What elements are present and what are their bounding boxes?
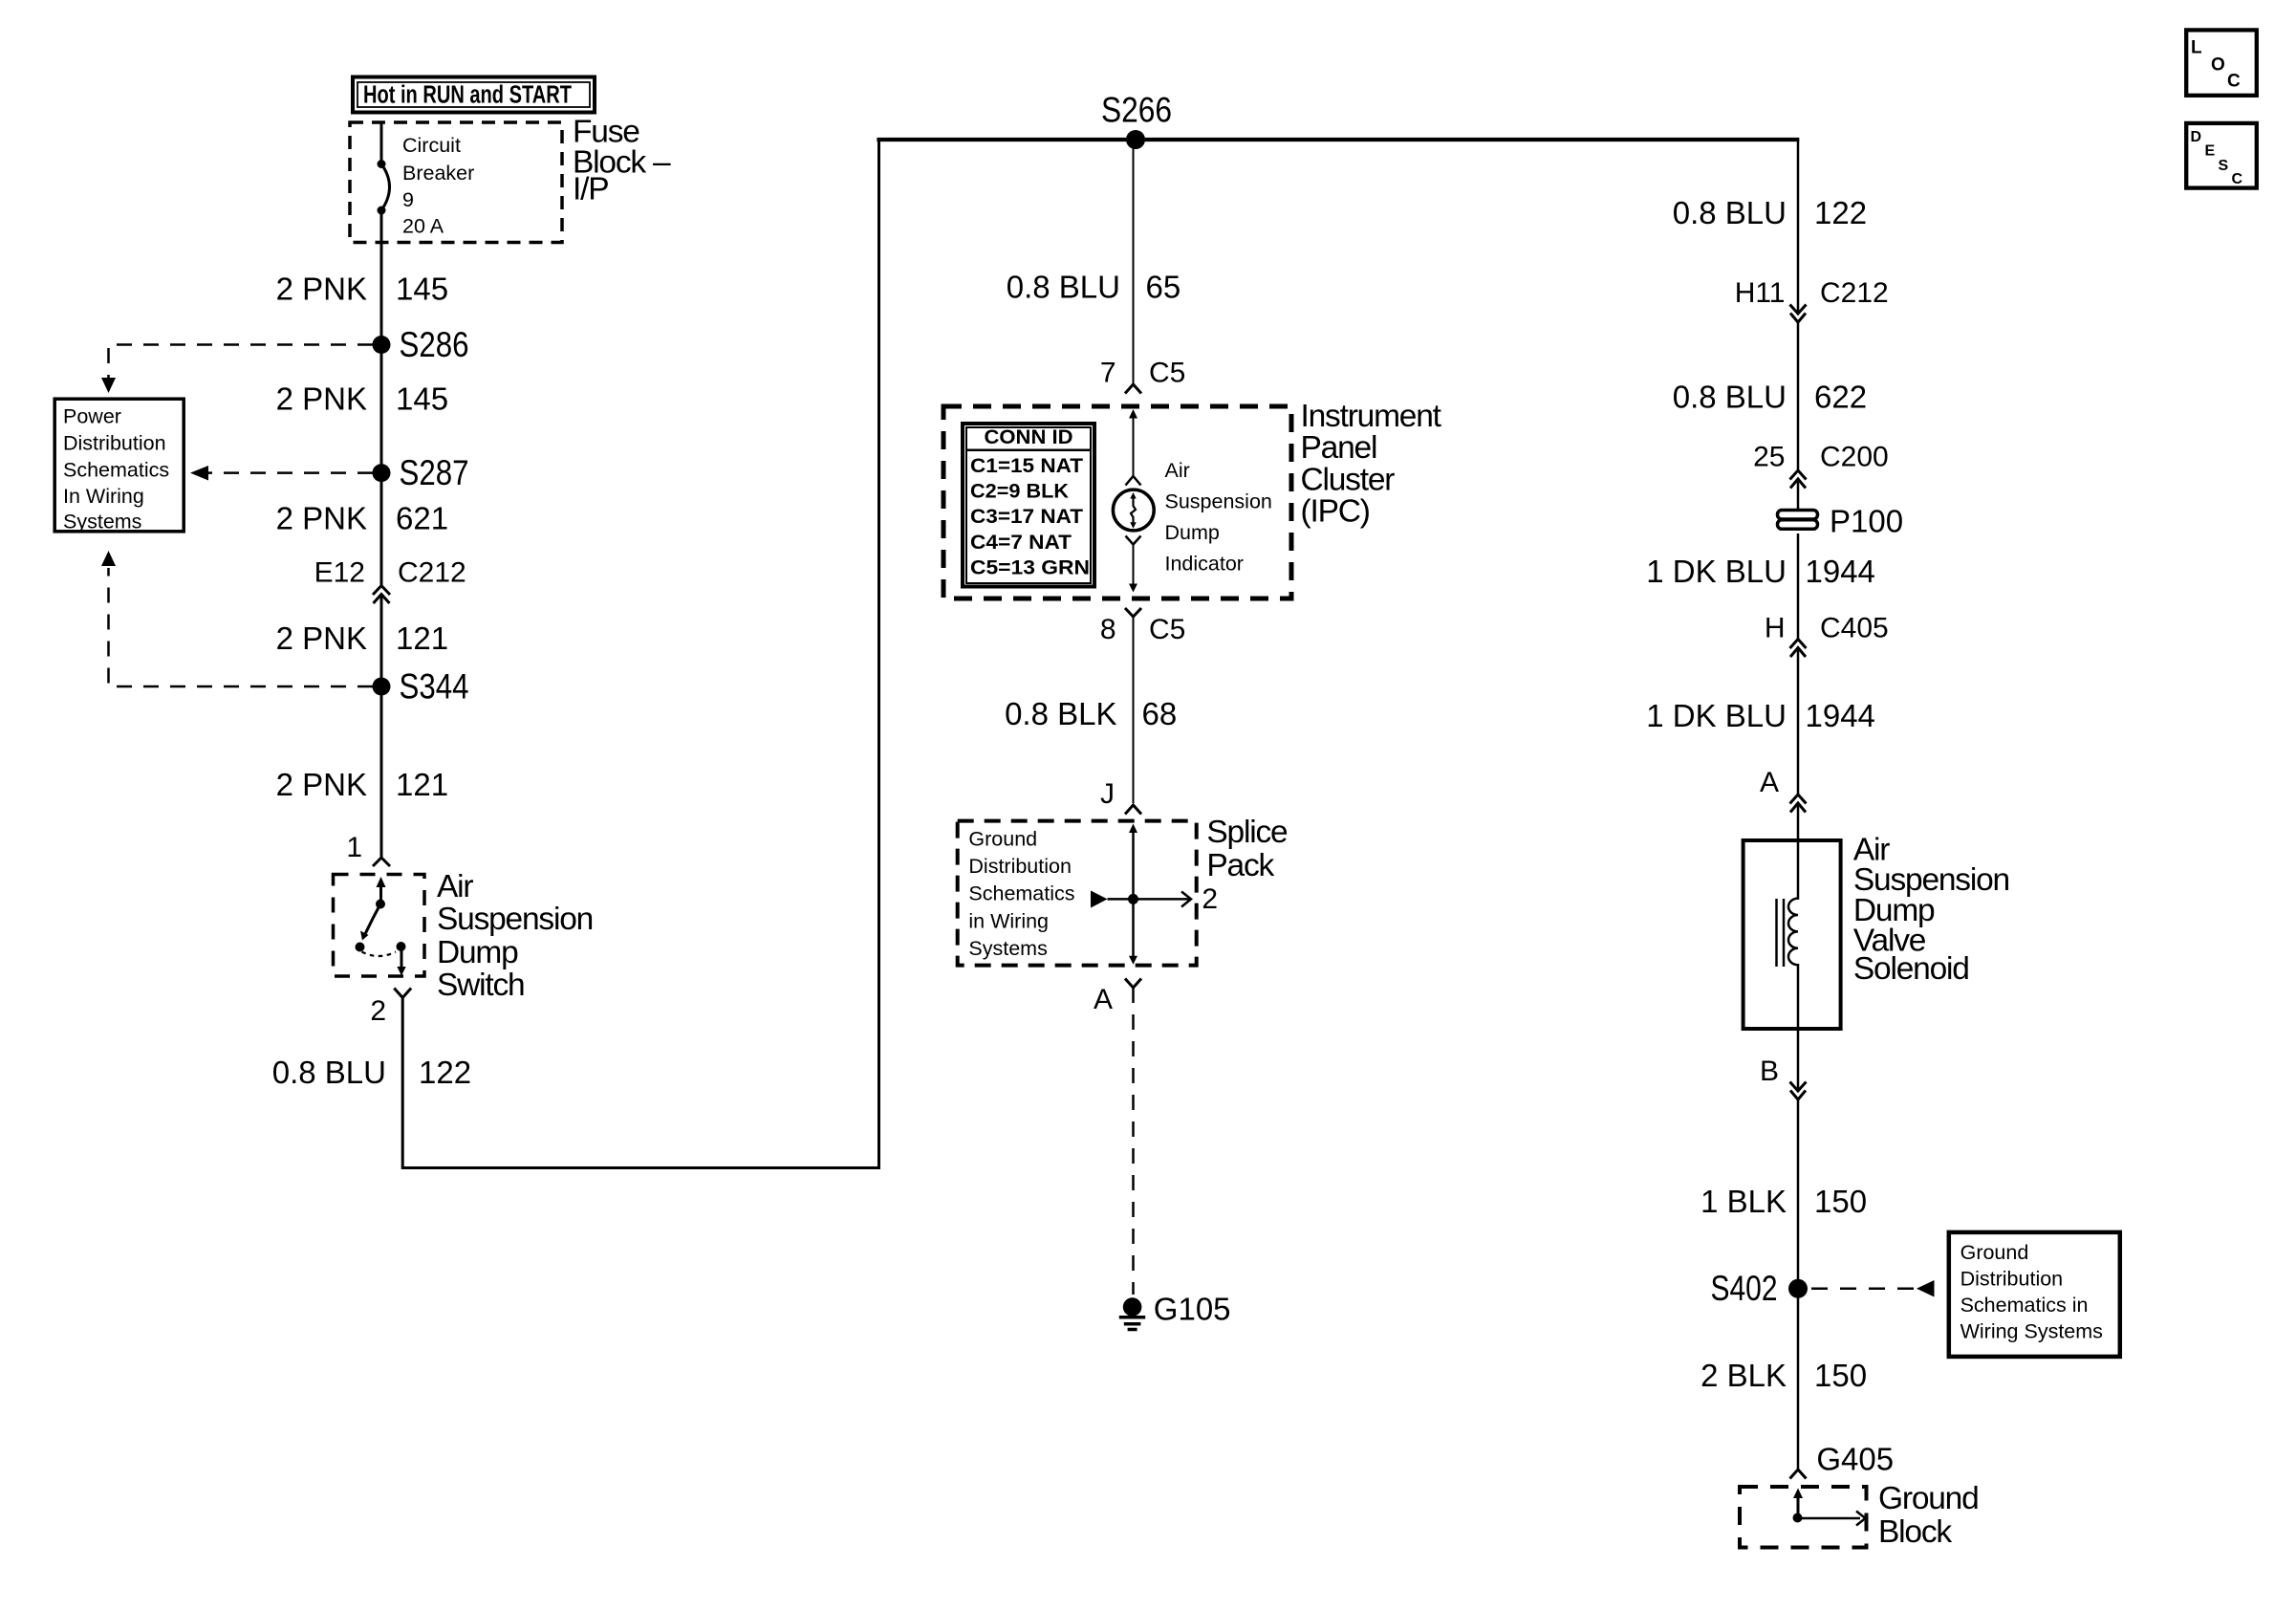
svg-text:In Wiring: In Wiring bbox=[63, 485, 144, 508]
IPC dashed box bbox=[943, 406, 1291, 599]
svg-text:Air: Air bbox=[437, 869, 473, 904]
svg-text:Indicator: Indicator bbox=[1165, 553, 1244, 576]
dashed ref S344 to power box bbox=[101, 551, 373, 686]
svg-text:S287: S287 bbox=[400, 453, 469, 492]
node S287 bbox=[373, 453, 469, 492]
svg-text:Ground: Ground bbox=[968, 827, 1037, 850]
wire C405 to solenoid pin A bbox=[1797, 648, 1800, 795]
ground G105 bbox=[1119, 1292, 1231, 1330]
splice pack pin J bbox=[1100, 778, 1141, 815]
svg-text:S286: S286 bbox=[400, 325, 469, 364]
svg-text:E12: E12 bbox=[314, 557, 365, 589]
dashed ref S286 to power box bbox=[101, 345, 373, 394]
svg-text:2 PNK: 2 PNK bbox=[276, 381, 367, 417]
svg-text:Panel: Panel bbox=[1301, 430, 1377, 466]
svg-text:1 DK BLU: 1 DK BLU bbox=[1646, 698, 1787, 733]
svg-text:Schematics: Schematics bbox=[968, 882, 1074, 905]
solenoid pin B bbox=[1760, 1056, 1807, 1099]
connector C200 pin 25 bbox=[1753, 442, 1889, 489]
svg-text:2 PNK: 2 PNK bbox=[276, 272, 367, 307]
svg-text:Ground: Ground bbox=[1960, 1241, 2029, 1264]
svg-text:7: 7 bbox=[1100, 358, 1116, 389]
wire label 0.8 BLU 65 bbox=[1007, 270, 1180, 305]
svg-text:150: 150 bbox=[1814, 1358, 1867, 1393]
wire label 2 PNK 621 bbox=[276, 501, 448, 536]
connector C212 pin E12 bbox=[314, 557, 466, 604]
svg-text:Systems: Systems bbox=[968, 937, 1047, 960]
wire breaker to switch pin1 bbox=[380, 210, 383, 585]
wire IPC to splice pack bbox=[1133, 617, 1135, 803]
solenoid coil bbox=[1777, 803, 1799, 1090]
svg-text:Hot in RUN and START: Hot in RUN and START bbox=[363, 82, 572, 109]
svg-text:O: O bbox=[2211, 55, 2225, 76]
svg-text:2 BLK: 2 BLK bbox=[1700, 1358, 1787, 1393]
wire label 2 BLK 150 bbox=[1700, 1358, 1867, 1393]
LOC icon bbox=[2186, 30, 2257, 95]
ground block dashed box bbox=[1740, 1487, 1867, 1548]
svg-text:Splice: Splice bbox=[1206, 815, 1288, 850]
middle wire S266 to IPC bbox=[1133, 140, 1135, 383]
node S344 bbox=[373, 667, 469, 707]
wire switch to bus bbox=[402, 140, 878, 1168]
wire label 2 PNK 121 bbox=[276, 767, 448, 802]
svg-text:C3=17 NAT: C3=17 NAT bbox=[970, 506, 1083, 528]
svg-text:C5: C5 bbox=[1149, 614, 1185, 645]
label Fuse Block - I/P bbox=[573, 115, 671, 207]
svg-text:Systems: Systems bbox=[63, 511, 141, 533]
dashed wire to G105 bbox=[1132, 988, 1135, 1295]
switch pin 2 bbox=[370, 989, 411, 1028]
svg-text:C4=7 NAT: C4=7 NAT bbox=[970, 532, 1072, 554]
connector C405 pin H bbox=[1765, 613, 1889, 658]
svg-text:C212: C212 bbox=[398, 557, 466, 589]
svg-text:622: 622 bbox=[1814, 380, 1867, 415]
svg-text:2 PNK: 2 PNK bbox=[276, 501, 367, 536]
wire label 0.8 BLU 122 bbox=[272, 1055, 471, 1090]
wire label 1 DK BLU 1944 bbox=[1646, 554, 1875, 589]
svg-text:621: 621 bbox=[396, 501, 448, 536]
svg-text:122: 122 bbox=[1814, 195, 1867, 230]
svg-text:A: A bbox=[1094, 984, 1113, 1015]
svg-text:2 PNK: 2 PNK bbox=[276, 620, 367, 656]
svg-text:P100: P100 bbox=[1830, 504, 1903, 539]
svg-text:S: S bbox=[2219, 158, 2229, 174]
svg-text:Schematics: Schematics bbox=[63, 459, 169, 482]
dashed ref S402 to ground dist box bbox=[1811, 1280, 1935, 1297]
svg-text:in Wiring: in Wiring bbox=[968, 909, 1049, 932]
label Ground Block bbox=[1878, 1481, 1979, 1550]
svg-text:C405: C405 bbox=[1820, 613, 1889, 644]
svg-text:1944: 1944 bbox=[1806, 698, 1875, 733]
svg-text:Distribution: Distribution bbox=[968, 855, 1072, 878]
svg-text:0.8 BLU: 0.8 BLU bbox=[1673, 380, 1787, 415]
wire label 2 PNK 121 bbox=[276, 620, 448, 656]
svg-text:1 DK BLU: 1 DK BLU bbox=[1646, 554, 1787, 589]
svg-text:Schematics in: Schematics in bbox=[1960, 1294, 2089, 1317]
air suspension dump switch box bbox=[334, 875, 425, 977]
wire P100 to C405 bbox=[1797, 533, 1800, 640]
svg-text:Power: Power bbox=[63, 405, 121, 428]
connector C5 pin 8 bbox=[1100, 608, 1186, 645]
solenoid pin A bbox=[1760, 767, 1807, 813]
solenoid box bbox=[1744, 840, 1841, 1029]
svg-text:Ground: Ground bbox=[1878, 1481, 1979, 1516]
svg-text:E: E bbox=[2205, 142, 2216, 159]
IPC internal wire bottom arrow bbox=[1126, 536, 1141, 593]
svg-text:2: 2 bbox=[370, 995, 386, 1027]
svg-text:G405: G405 bbox=[1816, 1442, 1894, 1477]
svg-text:Switch: Switch bbox=[437, 968, 524, 1003]
svg-text:B: B bbox=[1760, 1056, 1779, 1087]
svg-text:H: H bbox=[1765, 613, 1786, 644]
svg-text:65: 65 bbox=[1146, 270, 1181, 305]
ground distribution text bbox=[968, 827, 1074, 960]
svg-text:Cluster: Cluster bbox=[1301, 463, 1396, 498]
svg-text:9: 9 bbox=[402, 188, 414, 211]
svg-text:Breaker: Breaker bbox=[402, 162, 474, 185]
svg-text:C2=9 BLK: C2=9 BLK bbox=[970, 481, 1069, 503]
wire C200 to P100 bbox=[1797, 479, 1800, 510]
svg-text:68: 68 bbox=[1142, 696, 1178, 731]
CONN ID table bbox=[963, 424, 1094, 587]
svg-text:L: L bbox=[2191, 38, 2202, 58]
svg-text:Suspension: Suspension bbox=[437, 902, 593, 937]
svg-text:1 BLK: 1 BLK bbox=[1700, 1184, 1787, 1219]
svg-text:Air: Air bbox=[1165, 459, 1190, 482]
wire label 1 DK BLU 1944 bbox=[1646, 698, 1875, 733]
svg-text:J: J bbox=[1100, 778, 1115, 810]
top bus wire bbox=[877, 138, 1799, 142]
svg-text:C1=15 NAT: C1=15 NAT bbox=[970, 455, 1083, 477]
svg-text:2: 2 bbox=[1202, 883, 1218, 915]
svg-text:121: 121 bbox=[396, 620, 448, 656]
connector C5 pin 7 bbox=[1100, 358, 1186, 394]
svg-text:145: 145 bbox=[396, 381, 448, 417]
splice pack dashed box bbox=[958, 821, 1197, 966]
wire C212 to C200 bbox=[1797, 322, 1800, 469]
DESC icon bbox=[2186, 123, 2257, 188]
wire label 2 PNK 145 bbox=[276, 381, 448, 417]
ground distribution box bbox=[1949, 1232, 2120, 1357]
power distribution box bbox=[54, 399, 184, 533]
svg-text:Dump: Dump bbox=[437, 935, 518, 970]
svg-text:C212: C212 bbox=[1820, 277, 1889, 309]
ground G405 label bbox=[1790, 1442, 1895, 1479]
splice pack pin A bbox=[1094, 979, 1141, 1016]
label Air Suspension Dump Valve Solenoid bbox=[1853, 833, 2009, 988]
svg-text:Suspension: Suspension bbox=[1165, 490, 1272, 513]
svg-text:Instrument: Instrument bbox=[1301, 399, 1442, 434]
svg-text:0.8 BLU: 0.8 BLU bbox=[1007, 270, 1120, 305]
svg-text:S344: S344 bbox=[400, 667, 469, 707]
wire solenoid pin B to G405 bbox=[1797, 1099, 1800, 1469]
svg-text:Distribution: Distribution bbox=[63, 432, 166, 455]
fuse block dashed box bbox=[350, 122, 562, 243]
label Instrument Panel Cluster (IPC) bbox=[1301, 399, 1442, 530]
svg-text:C: C bbox=[2227, 72, 2241, 92]
node S286 bbox=[373, 325, 469, 364]
svg-text:0.8 BLU: 0.8 BLU bbox=[1673, 195, 1787, 230]
svg-text:Circuit: Circuit bbox=[402, 134, 461, 157]
svg-text:Distribution: Distribution bbox=[1960, 1268, 2064, 1291]
svg-text:A: A bbox=[1760, 767, 1779, 798]
label Splice Pack bbox=[1206, 815, 1288, 883]
svg-text:C200: C200 bbox=[1820, 442, 1889, 473]
svg-text:H11: H11 bbox=[1735, 277, 1786, 309]
svg-text:1: 1 bbox=[346, 832, 362, 863]
wire label 2 PNK 145 bbox=[276, 272, 448, 307]
svg-text:C5=13 GRN: C5=13 GRN bbox=[970, 557, 1090, 579]
dashed ref S287 to power box bbox=[190, 466, 373, 481]
svg-text:Solenoid: Solenoid bbox=[1853, 951, 1969, 987]
svg-text:0.8 BLU: 0.8 BLU bbox=[272, 1055, 386, 1090]
wire label 0.8 BLK 68 bbox=[1005, 696, 1177, 731]
svg-text:25: 25 bbox=[1753, 442, 1785, 473]
svg-text:0.8 BLK: 0.8 BLK bbox=[1005, 696, 1116, 731]
ground block internals bbox=[1793, 1489, 1866, 1526]
svg-text:G105: G105 bbox=[1154, 1292, 1231, 1327]
wire label 1 BLK 150 bbox=[1700, 1184, 1867, 1219]
switch internals bbox=[356, 877, 406, 976]
right column wire top bbox=[1797, 140, 1800, 313]
svg-text:Block: Block bbox=[1878, 1514, 1952, 1550]
svg-text:C5: C5 bbox=[1149, 358, 1185, 389]
svg-text:Wiring Systems: Wiring Systems bbox=[1960, 1320, 2103, 1343]
svg-text:I/P: I/P bbox=[573, 172, 608, 207]
svg-text:20 A: 20 A bbox=[402, 215, 444, 238]
svg-text:C: C bbox=[2232, 171, 2243, 187]
svg-text:150: 150 bbox=[1814, 1184, 1867, 1219]
IPC internal wire top arrow bbox=[1126, 409, 1141, 486]
svg-text:121: 121 bbox=[396, 767, 448, 802]
svg-text:122: 122 bbox=[419, 1055, 471, 1090]
switch pin 1 bbox=[346, 832, 390, 866]
svg-text:S402: S402 bbox=[1711, 1269, 1778, 1308]
svg-text:S266: S266 bbox=[1101, 91, 1172, 130]
splice pack internals bbox=[1091, 824, 1218, 965]
grommet P100 bbox=[1778, 504, 1904, 539]
wire into breaker bbox=[380, 122, 383, 164]
svg-text:(IPC): (IPC) bbox=[1301, 494, 1370, 530]
svg-text:Pack: Pack bbox=[1206, 848, 1274, 883]
hot-in-run title box bbox=[353, 77, 595, 113]
svg-text:145: 145 bbox=[396, 272, 448, 307]
svg-text:1944: 1944 bbox=[1806, 554, 1875, 589]
svg-text:2 PNK: 2 PNK bbox=[276, 767, 367, 802]
svg-text:Dump: Dump bbox=[1165, 521, 1220, 544]
wire label 0.8 BLU 622 bbox=[1673, 380, 1867, 415]
wire label 0.8 BLU 122 bbox=[1673, 195, 1867, 230]
svg-text:CONN ID: CONN ID bbox=[985, 426, 1073, 448]
node S266 bbox=[1101, 91, 1172, 150]
svg-text:D: D bbox=[2191, 129, 2202, 145]
indicator lamp circle bbox=[1113, 490, 1154, 531]
connector C212 pin H11 bbox=[1735, 277, 1889, 322]
node S402 bbox=[1711, 1269, 1809, 1308]
switch label bbox=[437, 869, 593, 1003]
indicator label Air Suspension Dump Indicator bbox=[1165, 459, 1272, 576]
circuit breaker CB9 bbox=[378, 134, 475, 238]
svg-text:8: 8 bbox=[1100, 614, 1116, 645]
